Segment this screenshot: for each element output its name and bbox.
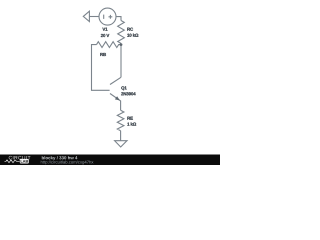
label RB [100, 53, 106, 56]
value 1 kOhm [127, 122, 136, 125]
transistor Q1 collector lead [110, 77, 121, 84]
node flag input [83, 11, 89, 21]
V1 plus sign [109, 15, 113, 19]
junction node dot [120, 43, 123, 46]
voltage source V1 [99, 8, 116, 25]
CircuitLab logo CIRCUIT [9, 156, 31, 160]
ground [115, 141, 127, 147]
label RE [127, 117, 132, 120]
CircuitLab logo zigzag [5, 160, 20, 163]
footer bar [0, 155, 220, 166]
V1 minus sign [103, 15, 105, 19]
CircuitLab logo LAB text [21, 160, 28, 163]
wire RB corner to base [92, 45, 110, 91]
wire V1 to RC [116, 17, 121, 21]
transistor Q1 emitter arrow [115, 96, 120, 100]
footer title [42, 156, 78, 160]
resistor RE [117, 110, 124, 130]
wire RE to ground [120, 131, 122, 141]
footer url [41, 160, 94, 164]
wire RC to node [120, 43, 122, 44]
CircuitLab logo LAB box [20, 159, 29, 164]
wire flag to V1 [89, 16, 99, 18]
transistor Q1 emitter lead [110, 94, 121, 111]
wire node to collector [120, 45, 122, 78]
value 10 kOhm [127, 34, 138, 37]
value 2N3904 [121, 92, 135, 95]
resistor RB [97, 42, 122, 48]
transistor Q1 base bar [109, 81, 111, 96]
label Q1 [121, 86, 126, 90]
resistor RC [118, 21, 125, 44]
value 20 V [101, 34, 109, 37]
label RC [127, 28, 133, 31]
label V1 [102, 28, 107, 31]
